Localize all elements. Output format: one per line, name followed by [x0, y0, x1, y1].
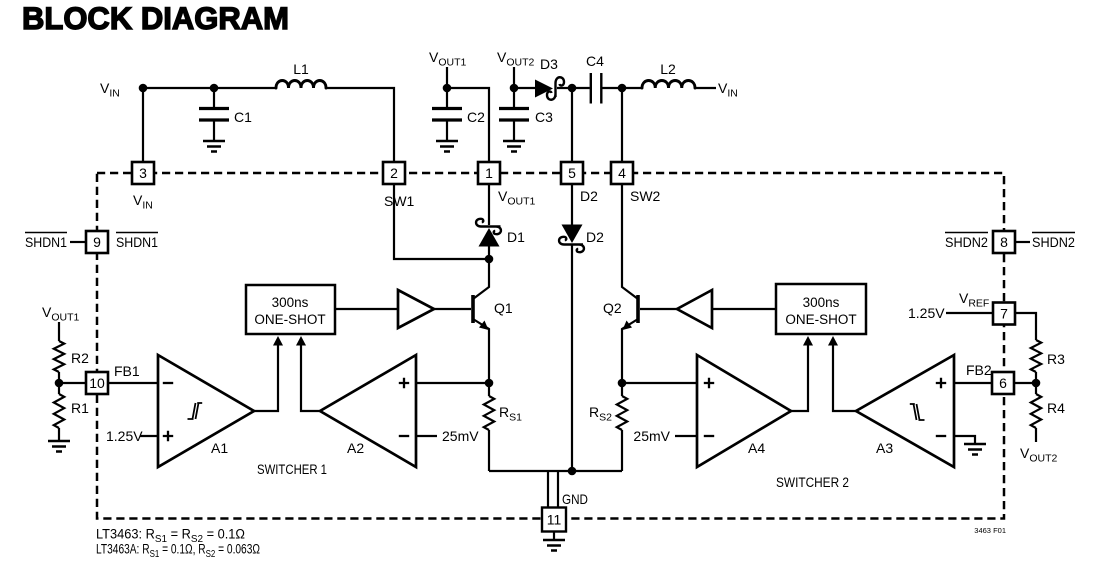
svg-text:SHDN2: SHDN2 [1032, 234, 1075, 250]
node RS1 top junction [485, 379, 494, 388]
svg-text:A2: A2 [347, 440, 364, 456]
svg-text:C2: C2 [467, 109, 485, 125]
wire SW1 to D1 node [394, 184, 485, 259]
svg-text:FB1: FB1 [114, 363, 140, 379]
svg-text:VIN: VIN [718, 80, 738, 100]
wire A3 output to one-shot2 [828, 336, 856, 411]
svg-text:VIN: VIN [100, 80, 120, 100]
svg-text:C3: C3 [535, 109, 553, 125]
svg-text:FB2: FB2 [966, 362, 992, 378]
svg-text:Q2: Q2 [603, 300, 622, 316]
node VOUT2 junction [510, 84, 519, 93]
resistor R1 [54, 383, 89, 440]
resistor R4 [1031, 383, 1065, 442]
transistor Q2 [603, 184, 638, 383]
ground below pin 11 [543, 532, 565, 551]
svg-text:25mV: 25mV [633, 428, 670, 444]
svg-text:VOUT2: VOUT2 [497, 49, 535, 69]
wire A3 plus to pin6 [954, 382, 992, 384]
wire GND kelvin pair [548, 471, 558, 508]
svg-text:R3: R3 [1047, 351, 1065, 367]
one-shot U2 (300ns ONE-SHOT, switcher 2) [776, 284, 866, 334]
one-shot U1 (300ns ONE-SHOT, switcher 1) [246, 285, 335, 334]
capacitor C4 [586, 53, 604, 104]
comparator A4 [697, 355, 791, 467]
svg-text:VIN: VIN [133, 192, 153, 212]
node C1 junction [210, 84, 219, 93]
node D2 bottom junction [568, 467, 577, 476]
svg-text:VOUT1: VOUT1 [429, 49, 467, 69]
net 25mV (A4 minus) [633, 428, 697, 444]
svg-text:ONE-SHOT: ONE-SHOT [785, 312, 856, 327]
wire pin3 drop [142, 88, 144, 162]
svg-text:SHDN1: SHDN1 [116, 234, 158, 250]
svg-text:D3: D3 [540, 56, 558, 72]
svg-text:11: 11 [547, 512, 562, 528]
diode D1 [476, 184, 525, 259]
svg-text:VREF: VREF [959, 290, 989, 310]
wire A2 output to one-shot1 [296, 336, 320, 411]
svg-text:1: 1 [485, 165, 493, 181]
pin 1 (VOUT1) [478, 162, 536, 208]
svg-text:A1: A1 [211, 440, 228, 456]
svg-text:25mV: 25mV [442, 428, 479, 444]
wire buffer1 to Q1 base [434, 308, 471, 310]
node D1-collector junction [485, 255, 494, 264]
capacitor C2 [432, 88, 485, 152]
resistor R3 [1031, 340, 1065, 383]
svg-text:SHDN2: SHDN2 [945, 234, 988, 250]
svg-text:7: 7 [1000, 306, 1008, 322]
svg-text:10: 10 [89, 375, 105, 391]
wire L1 to SW1 [326, 88, 394, 162]
wire pin10 to A1 minus [109, 363, 158, 383]
svg-text:L2: L2 [660, 61, 676, 77]
note figure number [974, 526, 1006, 535]
comparator A1 [158, 355, 254, 467]
wire A1 output to one-shot1 [254, 336, 283, 411]
pin 3 (VIN) [132, 162, 154, 212]
svg-text:A4: A4 [748, 440, 765, 456]
note RS values line 1 [96, 527, 245, 546]
resistor R2 [54, 341, 89, 383]
svg-text:2: 2 [390, 165, 398, 181]
wire A2 plus to RS1 node [416, 382, 489, 384]
svg-text:RS2: RS2 [589, 404, 612, 424]
wire buffer2 to one-shot2 [712, 308, 776, 310]
pin 5 (D2) [561, 162, 598, 204]
svg-text:D2: D2 [586, 229, 604, 245]
svg-text:A3: A3 [876, 440, 893, 456]
wire VOUT1 to pin1 [447, 67, 489, 162]
svg-text:LT3463A: RS1 = 0.1Ω, RS2 = 0.0: LT3463A: RS1 = 0.1Ω, RS2 = 0.063Ω [96, 542, 260, 561]
wire L2 to VIN right [695, 87, 716, 89]
inductor L2 [642, 61, 695, 88]
pin 7 (VREF) [993, 303, 1015, 325]
node FB2 junction [1032, 379, 1041, 388]
buffer B2 [677, 290, 712, 328]
pin 4 (SW2) [611, 162, 661, 204]
wire A4 output to one-shot2 [791, 336, 813, 411]
node RS2 top junction [618, 379, 627, 388]
net VIN (right label) [718, 80, 738, 100]
net 1.25V (A1 plus) [106, 428, 158, 444]
label SWITCHER 1 [257, 462, 327, 477]
pin 10 (FB1) [86, 372, 108, 394]
wire VOUT1 to R2 [58, 322, 60, 341]
svg-text:VOUT1: VOUT1 [498, 188, 536, 208]
net 1.25V (VREF) [908, 305, 993, 321]
wire A4 plus to RS2 node [622, 382, 697, 384]
svg-text:300ns: 300ns [272, 295, 309, 310]
svg-text:C1: C1 [234, 109, 252, 125]
ground at A3 [964, 444, 986, 455]
svg-text:D2: D2 [580, 188, 598, 204]
inductor L1 [276, 61, 326, 88]
svg-text:ONE-SHOT: ONE-SHOT [254, 312, 325, 327]
wire pin6 to FB2 node [1014, 382, 1036, 384]
svg-text:9: 9 [93, 234, 101, 250]
pin 9 (SHDN1) [25, 231, 158, 253]
svg-text:SWITCHER 1: SWITCHER 1 [257, 462, 327, 477]
comparator A3 [856, 355, 954, 467]
comparator A2 [320, 355, 416, 467]
wire A3 minus to ground [954, 436, 975, 443]
wire pin4 drop [621, 88, 623, 162]
net VIN (left input label) [100, 80, 120, 100]
svg-text:VOUT2: VOUT2 [1020, 445, 1058, 465]
svg-text:GND: GND [562, 491, 588, 507]
svg-text:4: 4 [618, 165, 626, 181]
svg-text:5: 5 [568, 165, 576, 181]
wire VOUT2 to D3 [514, 67, 536, 88]
buffer B1 [398, 290, 434, 328]
wire one-shot1 to buffer1 [335, 308, 398, 310]
svg-text:R2: R2 [71, 350, 89, 366]
title BLOCK DIAGRAM [22, 1, 289, 38]
net VREF label [959, 290, 989, 310]
svg-text:R1: R1 [71, 400, 89, 416]
ground below R1 [48, 441, 70, 452]
svg-text:D1: D1 [507, 229, 525, 245]
svg-text:SHDN1: SHDN1 [25, 234, 67, 250]
net VOUT2 (top label) [497, 49, 535, 69]
transistor Q1 [473, 259, 513, 383]
node VIN-pin3 junction [139, 84, 148, 93]
wire bottom rail to GND [489, 470, 622, 472]
svg-text:Q1: Q1 [494, 300, 513, 316]
net VOUT1 (top label) [429, 49, 467, 69]
svg-text:1.25V: 1.25V [908, 305, 945, 321]
diode D2 (catch diode) [559, 184, 604, 471]
svg-text:6: 6 [999, 375, 1007, 391]
wire VIN rail to L1 [139, 87, 276, 89]
note RS values line 2 [96, 542, 260, 561]
net 25mV (A2 minus) [416, 428, 479, 444]
svg-text:8: 8 [1000, 234, 1008, 250]
svg-text:SW1: SW1 [384, 193, 415, 209]
svg-text:SWITCHER 2: SWITCHER 2 [776, 475, 849, 490]
node C4-pin4 junction [618, 84, 627, 93]
svg-text:SW2: SW2 [630, 188, 661, 204]
svg-text:300ns: 300ns [803, 295, 840, 310]
wire FB1 node to pin10 [59, 382, 86, 384]
pin 11 (GND) [542, 491, 588, 532]
wire C4 to L2 [602, 87, 642, 89]
svg-text:3463 F01: 3463 F01 [974, 526, 1006, 535]
node VOUT1 junction [443, 84, 452, 93]
resistor RS2 [589, 383, 627, 471]
capacitor C1 [199, 88, 252, 152]
pin 6 (FB2) [966, 362, 1014, 394]
wire pin5 drop [571, 88, 573, 162]
net VOUT1 (left label) [42, 304, 80, 324]
net VOUT2 (bottom label) [1020, 445, 1058, 465]
label SWITCHER 2 [776, 475, 849, 490]
wire Q2 base to buffer2 [640, 308, 677, 310]
svg-text:3: 3 [139, 165, 147, 181]
node D3-pin5 junction [568, 84, 577, 93]
node FB1 junction [55, 379, 64, 388]
pin 8 (SHDN2) [945, 231, 1075, 253]
pin 2 (SW1) [383, 162, 415, 209]
svg-text:1.25V: 1.25V [106, 428, 143, 444]
wire pin7 to R3 [1015, 313, 1036, 340]
wire D3 to C4 [557, 87, 590, 89]
svg-text:L1: L1 [293, 61, 309, 77]
svg-text:VOUT1: VOUT1 [42, 304, 80, 324]
svg-text:C4: C4 [586, 53, 604, 69]
resistor RS1 [484, 383, 522, 471]
svg-text:R4: R4 [1047, 400, 1065, 416]
diode D3 [535, 56, 564, 100]
capacitor C3 [499, 88, 553, 152]
IC boundary dashed box [97, 173, 1004, 519]
svg-text:RS1: RS1 [499, 404, 522, 424]
